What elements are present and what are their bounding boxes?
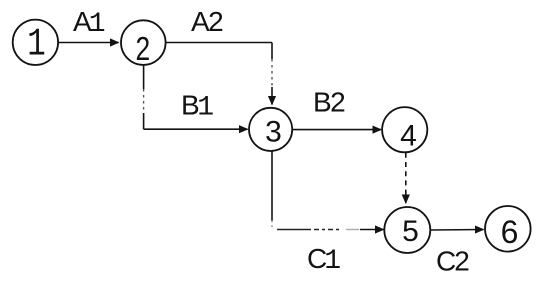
wire B1 horizontal into node 3 — [144, 128, 248, 130]
svg-text:3: 3 — [265, 116, 282, 149]
wire A1 arrow 1-2 — [59, 42, 119, 44]
wire dashed dummy 4-5 — [405, 153, 407, 203]
svg-text:1: 1 — [27, 24, 45, 67]
wire C1 dash-dot horizontal into node 5 — [277, 229, 311, 231]
node 5 — [384, 207, 430, 253]
wire C1 vertical from node 3 — [271, 151, 273, 220]
svg-text:6: 6 — [501, 214, 519, 250]
node 1 — [13, 20, 58, 65]
wire B1 vertical from node 2 — [143, 66, 145, 90]
node 2 — [121, 20, 166, 65]
svg-text:C2: C2 — [436, 246, 469, 277]
svg-text:B1: B1 — [181, 90, 214, 124]
svg-text:5: 5 — [402, 215, 419, 248]
wire A2 horizontal from node 2 — [166, 42, 272, 44]
wire A2 vertical into node 3 — [271, 43, 273, 60]
node 4 — [382, 107, 427, 152]
node 3 — [249, 108, 292, 151]
svg-text:4: 4 — [400, 120, 417, 153]
svg-text:B2: B2 — [313, 87, 345, 118]
svg-text:C1: C1 — [307, 243, 341, 277]
svg-text:A2: A2 — [191, 6, 223, 37]
node 6 — [485, 206, 531, 252]
wire C2 arrow 5-6 — [431, 229, 484, 232]
svg-text:2: 2 — [135, 31, 150, 67]
wire B2 arrow 3-4 — [293, 129, 382, 131]
svg-text:A1: A1 — [73, 6, 106, 40]
